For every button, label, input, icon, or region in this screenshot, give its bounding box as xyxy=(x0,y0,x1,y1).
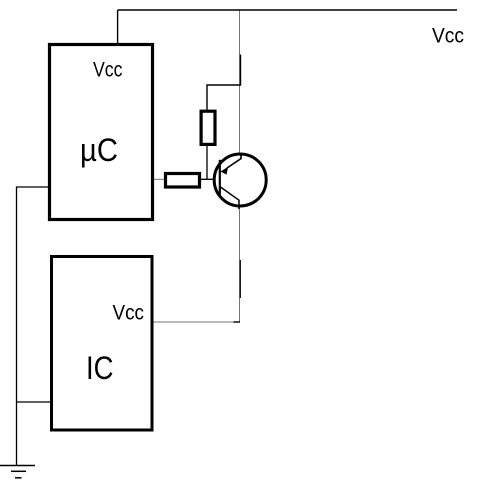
transistor Q1 emitter arrowhead (pointing into base: PNP) xyxy=(221,167,229,175)
svg-text:Vcc: Vcc xyxy=(432,24,464,47)
wire: gray lead from µC pin to resistor R2 xyxy=(153,178,165,180)
IC box xyxy=(52,257,153,431)
resistor R1 (vertical pull-up to Vcc) xyxy=(201,111,215,144)
wire: gray horizontal from IC Vcc pin to vertical net xyxy=(154,321,240,323)
wire: µC top lead to Vcc rail xyxy=(117,10,119,44)
transistor Q1 collector line (bottom) xyxy=(221,187,240,209)
wire: R1 bottom lead to base node xyxy=(206,146,208,180)
net: gray connector from Vcc rail down to transistor (upper segment) xyxy=(239,10,241,154)
svg-text:IC: IC xyxy=(86,350,114,386)
svg-text:Vcc: Vcc xyxy=(93,58,123,81)
transistor Q1 base bar xyxy=(219,160,221,196)
wire: µC left pin to ground rail xyxy=(17,187,50,466)
ground symbol xyxy=(0,466,35,478)
svg-text:µC: µC xyxy=(80,132,118,168)
transistor Q1 (PNP) body circle xyxy=(214,154,266,206)
wire: ground rail branch to IC left pin xyxy=(17,401,51,403)
wire: resistor R1 top lead up and over to vertical net xyxy=(207,55,241,111)
transistor Q1 emitter line (top, to Vcc) xyxy=(227,154,241,169)
wire: R2 right lead to transistor base xyxy=(201,178,219,180)
wire: black segment of vertical net below transistor xyxy=(239,260,241,298)
microcontroller U1 (µC) box xyxy=(50,45,153,220)
resistor R2 (horizontal base series) xyxy=(166,174,200,188)
wire: black end of IC Vcc horizontal wire xyxy=(234,321,241,323)
svg-text:Vcc: Vcc xyxy=(113,302,145,325)
net: gray connector from transistor down to IC Vcc node (lower segment) xyxy=(239,207,241,323)
wire: Vcc top rail xyxy=(118,9,457,11)
